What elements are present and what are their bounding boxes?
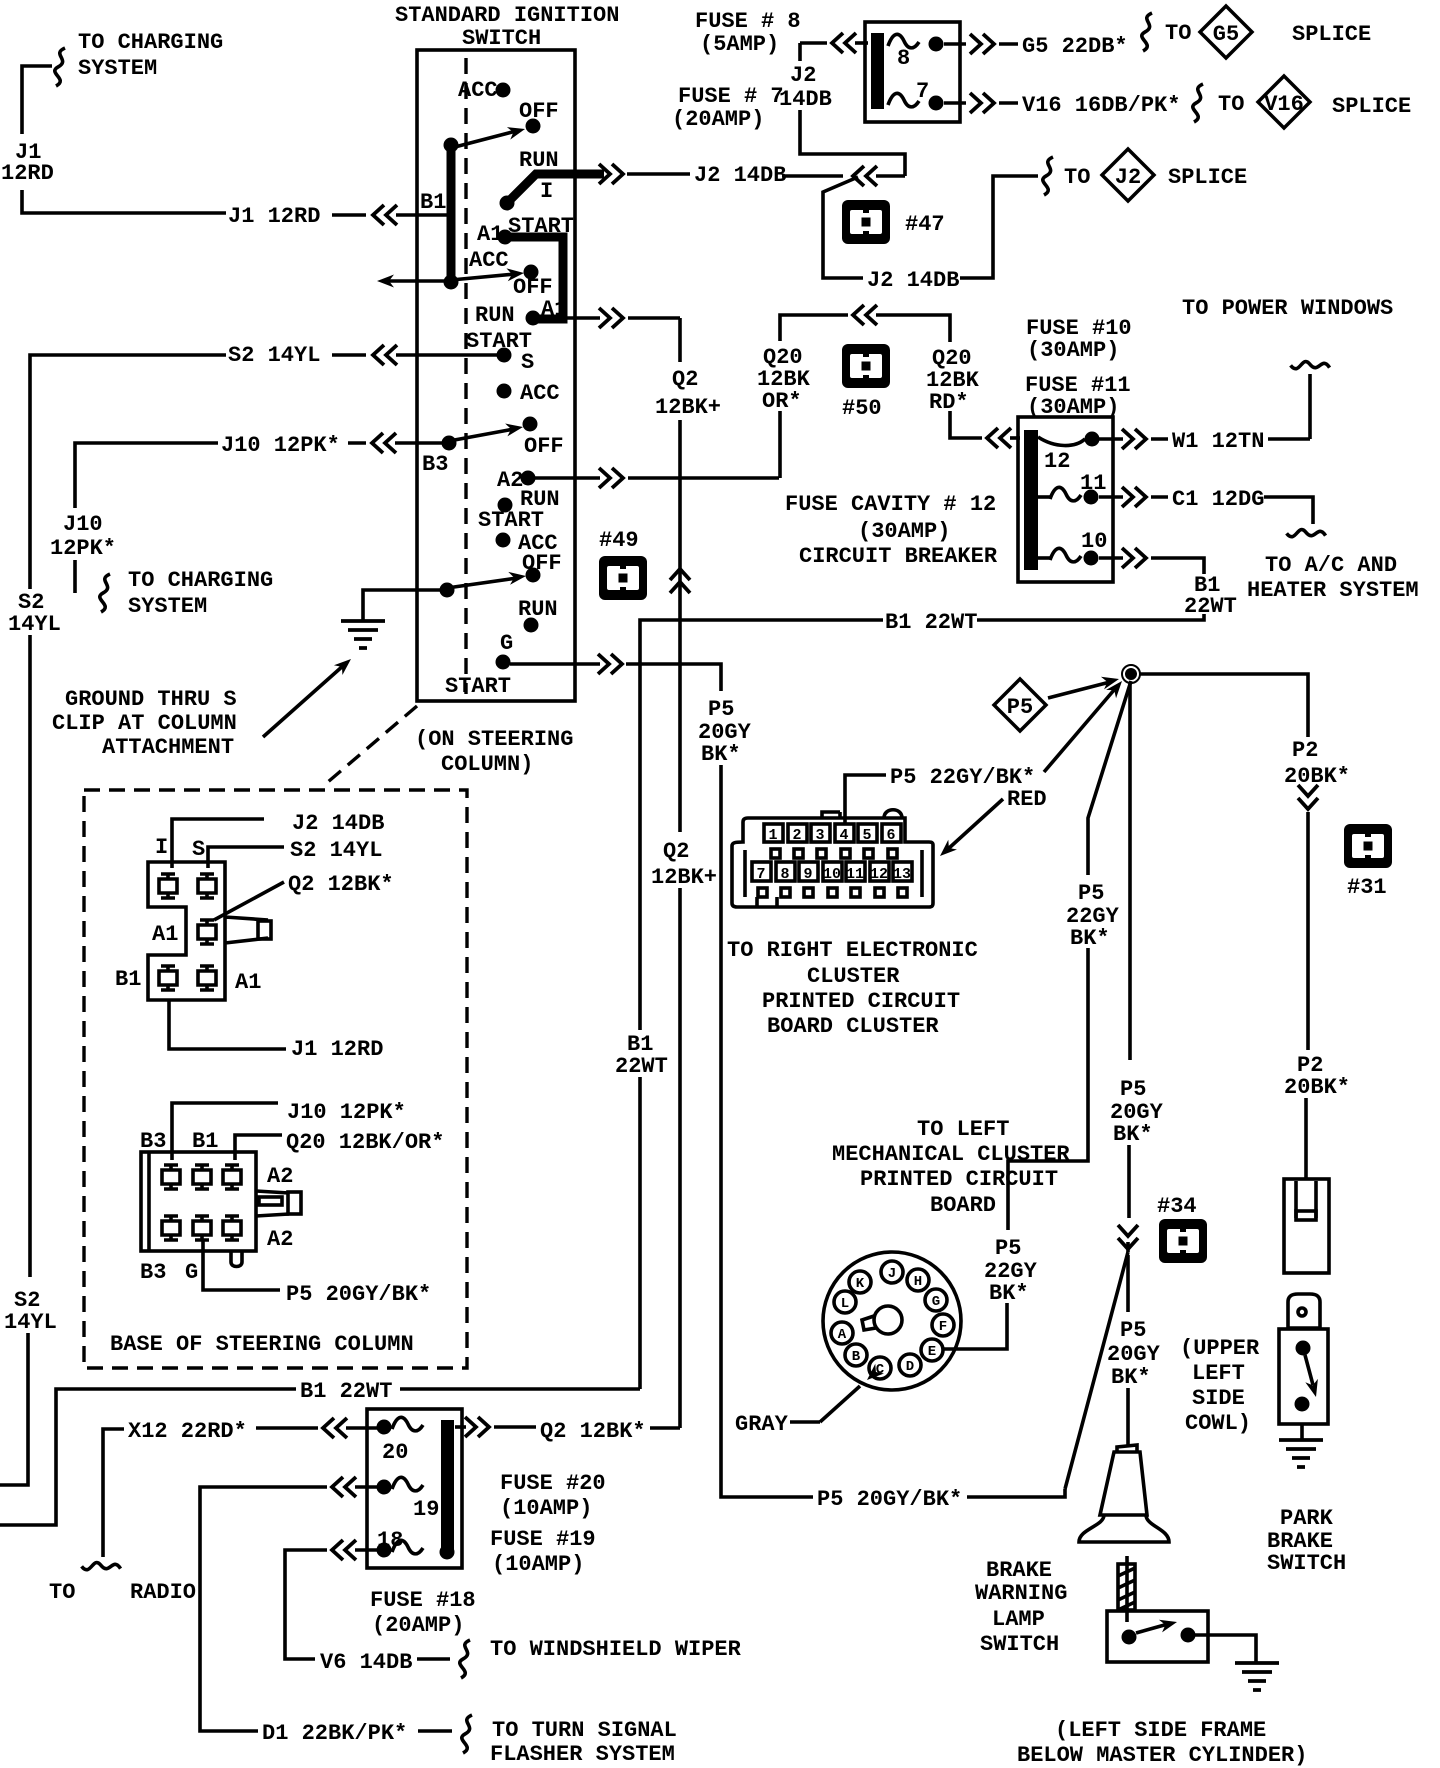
svg-text:#49: #49 [599, 528, 639, 553]
label to right electronic cluster [727, 938, 978, 1039]
svg-text:12PK*: 12PK* [50, 536, 116, 561]
13-pin connector outline [732, 810, 933, 908]
svg-text:GROUND THRU S: GROUND THRU S [65, 687, 237, 712]
svg-text:FLASHER SYSTEM: FLASHER SYSTEM [490, 1742, 675, 1767]
svg-text:14YL: 14YL [8, 612, 61, 637]
svg-text:J: J [888, 1266, 896, 1282]
svg-text:P5: P5 [708, 697, 734, 722]
svg-text:BK*: BK* [1113, 1122, 1153, 1147]
svg-text:#31: #31 [1347, 875, 1387, 900]
contact RUN / I with thick wire [500, 148, 605, 211]
svg-text:8: 8 [780, 866, 789, 883]
svg-text:LEFT: LEFT [1192, 1361, 1245, 1386]
svg-text:1: 1 [768, 827, 777, 844]
svg-text:14DB: 14DB [779, 87, 832, 112]
connector 34 [1157, 1194, 1207, 1263]
label fuse 19 [490, 1527, 596, 1577]
svg-text:RUN: RUN [518, 597, 558, 622]
svg-text:Q2: Q2 [672, 367, 698, 392]
svg-text:(20AMP): (20AMP) [672, 107, 764, 132]
brake lamp switch grommet [1079, 1445, 1169, 1542]
arrow ground annotation [52, 654, 355, 760]
svg-text:20GY: 20GY [1107, 1342, 1161, 1367]
svg-text:20: 20 [382, 1440, 408, 1465]
svg-text:B1: B1 [420, 190, 446, 215]
svg-text:G5 22DB*: G5 22DB* [1022, 34, 1128, 59]
svg-text:(30AMP): (30AMP) [1027, 338, 1119, 363]
contact RUN/START labels above S [466, 303, 532, 354]
svg-text:START: START [445, 674, 511, 699]
brake switch ground [1195, 1635, 1279, 1690]
wire P5 22GY/BK from pin 4 [845, 677, 1127, 824]
svg-text:START: START [478, 508, 544, 533]
splice diamond J2 [1102, 149, 1154, 201]
svg-text:STANDARD IGNITION: STANDARD IGNITION [395, 3, 619, 28]
svg-text:COWL): COWL) [1185, 1411, 1251, 1436]
svg-text:TO WINDSHIELD WIPER: TO WINDSHIELD WIPER [490, 1637, 742, 1662]
connector 31 [1344, 824, 1392, 900]
svg-text:TO POWER WINDOWS: TO POWER WINDOWS [1182, 296, 1393, 321]
svg-text:TO LEFT: TO LEFT [917, 1117, 1009, 1142]
fuse bus bar [871, 33, 884, 109]
wire J1 12RD into switch [228, 204, 447, 229]
contact A1 START with thick wire [477, 214, 574, 326]
svg-text:(10AMP): (10AMP) [500, 1496, 592, 1521]
breaker bus bar [1024, 430, 1038, 570]
round connector pin letters [838, 1266, 947, 1378]
svg-text:12: 12 [1044, 449, 1070, 474]
svg-text:B1: B1 [192, 1129, 218, 1154]
label park brake switch [1267, 1506, 1346, 1576]
svg-text:V16: V16 [1264, 92, 1304, 117]
svg-text:19: 19 [413, 1497, 439, 1522]
svg-text:BELOW MASTER CYLINDER): BELOW MASTER CYLINDER) [1017, 1743, 1307, 1768]
svg-text:3: 3 [815, 827, 824, 844]
svg-text:V16 16DB/PK*: V16 16DB/PK* [1022, 93, 1180, 118]
svg-text:P5: P5 [995, 1236, 1021, 1261]
svg-text:J10 12PK*: J10 12PK* [287, 1100, 406, 1125]
svg-text:B1: B1 [115, 967, 141, 992]
wire P5 20GY/BK from G [510, 654, 813, 1497]
svg-text:7: 7 [916, 79, 929, 104]
connector 49 [599, 528, 647, 600]
park brake ground [1279, 1424, 1323, 1467]
svg-text:HEATER SYSTEM: HEATER SYSTEM [1247, 578, 1419, 603]
upper connector pins [159, 874, 216, 990]
svg-text:20BK*: 20BK* [1284, 1075, 1350, 1100]
svg-text:BK*: BK* [1070, 926, 1110, 951]
label brake warning lamp switch [975, 1558, 1067, 1657]
dashed box base of steering column [84, 790, 467, 1368]
fuse 11 element [1038, 471, 1106, 505]
svg-text:SPLICE: SPLICE [1332, 94, 1411, 119]
svg-text:SYSTEM: SYSTEM [78, 56, 157, 81]
label left side frame [1017, 1718, 1307, 1768]
svg-text:B1 22WT: B1 22WT [885, 610, 977, 635]
contact A2 RUN [497, 468, 560, 512]
fuse 7 element [888, 79, 944, 111]
svg-text:TO CHARGING: TO CHARGING [128, 568, 273, 593]
ignition switch internal dashed divider [464, 58, 467, 694]
label to left mechanical cluster [832, 1117, 1070, 1218]
svg-text:Q20 12BK/OR*: Q20 12BK/OR* [286, 1130, 444, 1155]
svg-text:(5AMP): (5AMP) [700, 32, 779, 57]
svg-text:WARNING: WARNING [975, 1581, 1067, 1606]
circuit breaker box [1018, 417, 1113, 582]
svg-text:BK*: BK* [989, 1281, 1029, 1306]
svg-text:ACC: ACC [520, 381, 560, 406]
wire P5 20GY/BK from junction to 34 [967, 683, 1164, 1497]
svg-text:FUSE #18: FUSE #18 [370, 1588, 476, 1613]
wire Q20 RD down to breaker [950, 411, 1020, 448]
pin numbers 1-6 [768, 827, 895, 844]
B1 feed bar [420, 138, 459, 290]
svg-text:(30AMP): (30AMP) [858, 519, 950, 544]
svg-text:(ON STEERING: (ON STEERING [415, 727, 573, 752]
wire J2 14DB into fuse block [779, 33, 905, 176]
svg-text:TO TURN SIGNAL: TO TURN SIGNAL [492, 1718, 677, 1743]
fuse 18 element [377, 1528, 455, 1560]
junction node P5 [1122, 665, 1140, 683]
label fuse 18 [370, 1588, 476, 1638]
svg-text:J10: J10 [63, 512, 103, 537]
svg-text:FUSE # 7: FUSE # 7 [678, 84, 784, 109]
svg-text:SIDE: SIDE [1192, 1386, 1245, 1411]
svg-text:SPLICE: SPLICE [1292, 22, 1371, 47]
label Q20 12BK RD [926, 346, 980, 415]
fuse 12 element [1038, 432, 1100, 475]
wire C1 12DG to AC heater [1099, 487, 1419, 603]
svg-text:#47: #47 [905, 212, 945, 237]
svg-text:P5: P5 [1120, 1318, 1146, 1343]
svg-text:BOARD: BOARD [930, 1193, 996, 1218]
svg-text:12BK+: 12BK+ [655, 395, 721, 420]
svg-text:B1 22WT: B1 22WT [300, 1379, 392, 1404]
svg-text:TO: TO [49, 1580, 75, 1605]
svg-text:10: 10 [1081, 529, 1107, 554]
wiper arrow B1 bottom to OFF [451, 267, 525, 282]
label fuse cavity 12 [785, 492, 998, 569]
svg-text:B3: B3 [140, 1260, 166, 1285]
wire V6 14DB through fuse 18 [285, 1540, 742, 1678]
fuse bus bar bottom [441, 1420, 454, 1554]
fuse 19 element [377, 1477, 440, 1522]
wire D1 22BK/PK through fuse 19 [200, 1477, 677, 1767]
svg-text:W1 12TN: W1 12TN [1172, 429, 1264, 454]
wire Q20 OR down to A2 [778, 411, 782, 478]
svg-text:OFF: OFF [513, 275, 553, 300]
svg-text:J2 14DB: J2 14DB [292, 811, 384, 836]
contact G START [445, 631, 513, 699]
connector 47 [842, 200, 945, 244]
wire W1 12TN to power windows [1099, 429, 1310, 454]
label upper left side cowl [1180, 1336, 1260, 1436]
svg-text:12BK+: 12BK+ [651, 865, 717, 890]
svg-text:V6 14DB: V6 14DB [320, 1650, 412, 1675]
wire A2 out [535, 468, 779, 488]
svg-text:#50: #50 [842, 396, 882, 421]
fuse 20 element [377, 1417, 424, 1465]
contact ACC third [497, 381, 560, 406]
wire to ground thru S clip [341, 590, 447, 648]
fuse 8 and 7 labels [672, 9, 801, 132]
svg-text:22WT: 22WT [1184, 594, 1237, 619]
wire Q20 12BK/OR to B1 pin [235, 1130, 444, 1160]
svg-text:I: I [155, 835, 168, 860]
contact S [497, 348, 535, 376]
svg-text:PRINTED CIRCUIT: PRINTED CIRCUIT [860, 1167, 1058, 1192]
round connector left mechanical cluster [823, 1252, 961, 1390]
svg-text:SWITCH: SWITCH [1267, 1551, 1346, 1576]
upper connector pin labels [115, 835, 261, 995]
wire Q2 12BK vertical [651, 318, 721, 1428]
svg-text:7: 7 [756, 866, 765, 883]
splice diamond P5 with arrow [994, 673, 1121, 731]
label Q20 12BK OR [757, 345, 811, 414]
svg-text:6: 6 [886, 827, 895, 844]
svg-text:SYSTEM: SYSTEM [128, 594, 207, 619]
svg-text:BRAKE: BRAKE [986, 1558, 1052, 1583]
brake warning lamp switch body [1107, 1611, 1208, 1662]
label fuse 20 [500, 1471, 606, 1521]
ignition switch box [417, 50, 575, 701]
svg-text:2: 2 [792, 827, 801, 844]
svg-text:FUSE #20: FUSE #20 [500, 1471, 606, 1496]
svg-text:E: E [928, 1344, 936, 1360]
svg-text:BASE OF STEERING COLUMN: BASE OF STEERING COLUMN [110, 1332, 414, 1357]
svg-text:S2 14YL: S2 14YL [228, 343, 320, 368]
wire J2 14DB from RUN I [599, 163, 905, 188]
svg-text:FUSE CAVITY # 12: FUSE CAVITY # 12 [785, 492, 996, 517]
wire stub to brake warning lamp switch [1107, 1255, 1161, 1445]
svg-text:P2: P2 [1292, 738, 1318, 763]
svg-text:J1 12RD: J1 12RD [228, 204, 320, 229]
labels FUSE 10 / FUSE 11 [1025, 316, 1132, 420]
svg-text:4: 4 [839, 827, 848, 844]
title ignition switch [395, 3, 619, 51]
svg-text:P5: P5 [1078, 881, 1104, 906]
svg-text:CLUSTER: CLUSTER [807, 964, 900, 989]
svg-text:G: G [500, 631, 513, 656]
contact ACC fourth [496, 531, 558, 556]
contact B3 wiper [422, 421, 524, 477]
svg-text:B: B [852, 1349, 861, 1365]
wire J1 12RD to B1 pin [169, 1000, 383, 1062]
svg-text:TO RIGHT ELECTRONIC: TO RIGHT ELECTRONIC [727, 938, 978, 963]
label RED with arrow [936, 787, 1047, 861]
park brake connector P2 [1284, 1179, 1329, 1273]
wire X12 22RD to radio [49, 1418, 377, 1605]
contact ACC top [458, 78, 511, 103]
svg-text:BK*: BK* [1111, 1365, 1151, 1390]
svg-text:14YL: 14YL [4, 1310, 57, 1335]
svg-text:TO CHARGING: TO CHARGING [78, 30, 223, 55]
svg-text:(10AMP): (10AMP) [492, 1552, 584, 1577]
wire J10 12PK to charging [50, 433, 442, 619]
svg-text:S2 14YL: S2 14YL [290, 838, 382, 863]
wire fork down to connector 47 [823, 176, 1038, 293]
svg-text:S: S [521, 350, 534, 375]
svg-text:9: 9 [803, 866, 812, 883]
svg-text:C1 12DG: C1 12DG [1172, 487, 1264, 512]
svg-text:A1: A1 [152, 922, 178, 947]
svg-text:ACC: ACC [458, 78, 498, 103]
wire Q2 12BK from fuse 20 [455, 1417, 680, 1444]
fuse block 18/19/20 box [367, 1409, 462, 1568]
svg-text:SPLICE: SPLICE [1168, 165, 1247, 190]
wire S2 14YL [0, 343, 497, 1485]
svg-text:13: 13 [893, 866, 911, 883]
lower connector pins [162, 1165, 241, 1240]
brake lamp switch threaded stem [1118, 1556, 1135, 1622]
round connector pins [831, 1261, 954, 1379]
contact OFF fourth [522, 551, 562, 583]
svg-text:P5: P5 [1120, 1077, 1146, 1102]
wire B1 22WT from fuse 10 [615, 548, 1237, 1389]
wire S2 14YL to S pin [208, 838, 382, 868]
upper column connector outline [148, 862, 271, 1000]
dashed pointer to base of steering column [322, 706, 417, 787]
svg-text:SWITCH: SWITCH [462, 26, 541, 51]
connector 50 [842, 344, 890, 421]
svg-text:Q2 12BK*: Q2 12BK* [288, 872, 394, 897]
svg-text:RED: RED [1007, 787, 1047, 812]
svg-text:CIRCUIT BREAKER: CIRCUIT BREAKER [799, 544, 998, 569]
wire G5 22DB out of fuse 8 [944, 13, 1371, 59]
bottom key squares [758, 888, 907, 897]
wire P2 20BK from junction [1140, 674, 1350, 1179]
ground wiper pivot [440, 570, 527, 598]
svg-text:PARK: PARK [1280, 1506, 1334, 1531]
svg-text:(20AMP): (20AMP) [372, 1613, 464, 1638]
svg-text:L: L [841, 1296, 849, 1312]
park brake switch [1279, 1329, 1328, 1424]
svg-text:12RD: 12RD [1, 161, 54, 186]
lower connector pin labels [140, 1129, 293, 1285]
wire to J2 splice [1043, 157, 1247, 195]
fuse 8 element [888, 34, 944, 71]
wire V16 16DB/PK out of fuse 7 [944, 84, 1411, 122]
svg-text:A1: A1 [235, 970, 261, 995]
contact OFF top [519, 99, 559, 134]
splice diamond G5 [1200, 6, 1252, 58]
svg-text:LAMP: LAMP [992, 1607, 1045, 1632]
svg-text:TO: TO [1218, 92, 1244, 117]
svg-text:BK*: BK* [701, 742, 741, 767]
svg-text:ACC: ACC [469, 248, 509, 273]
svg-text:RUN: RUN [475, 303, 515, 328]
svg-text:D: D [906, 1359, 914, 1375]
svg-text:CLIP AT COLUMN: CLIP AT COLUMN [52, 711, 237, 736]
contact ACC/OFF second [469, 248, 553, 300]
svg-text:J2 14DB: J2 14DB [867, 268, 959, 293]
svg-text:Q2 12BK*: Q2 12BK* [540, 1419, 646, 1444]
contact START fourth [478, 498, 544, 534]
contact RUN fifth [518, 597, 558, 633]
pin numbers 7-13 [756, 866, 911, 883]
svg-text:A2: A2 [267, 1164, 293, 1189]
svg-text:I: I [540, 179, 553, 204]
label GRAY with arrow [735, 1364, 884, 1437]
wire J1 12RD to charging system [1, 30, 226, 213]
svg-text:COLUMN): COLUMN) [441, 752, 533, 777]
wire J10 12PK to B3 pin [172, 1100, 406, 1160]
lower column connector outline [141, 1152, 301, 1267]
svg-text:P5 20GY/BK*: P5 20GY/BK* [286, 1282, 431, 1307]
svg-text:OFF: OFF [524, 434, 564, 459]
wire P5 22GY/BK to E pin [944, 681, 1131, 1349]
svg-text:PRINTED CIRCUIT: PRINTED CIRCUIT [762, 989, 960, 1014]
fuse block 8/7 box [865, 22, 960, 122]
svg-text:FUSE # 8: FUSE # 8 [695, 9, 801, 34]
wire P5 20GY/BK to G pin [203, 1240, 431, 1307]
wire Q20 link row [780, 305, 950, 342]
wire J2 14DB to I pin [172, 811, 384, 868]
wire B1 22WT bottom run [0, 1379, 640, 1525]
svg-text:F: F [939, 1319, 947, 1335]
svg-text:OFF: OFF [519, 99, 559, 124]
svg-text:TO A/C AND: TO A/C AND [1265, 553, 1397, 578]
park brake plug [1288, 1294, 1320, 1328]
svg-text:K: K [856, 1276, 865, 1292]
middle key squares [771, 849, 897, 858]
svg-text:SWITCH: SWITCH [980, 1632, 1059, 1657]
svg-text:H: H [914, 1274, 922, 1290]
svg-text:X12 22RD*: X12 22RD* [128, 1419, 247, 1444]
svg-text:J1 12RD: J1 12RD [291, 1037, 383, 1062]
label TO POWER WINDOWS [1182, 296, 1393, 439]
svg-text:MECHANICAL CLUSTER: MECHANICAL CLUSTER [832, 1142, 1070, 1167]
svg-text:22WT: 22WT [615, 1054, 668, 1079]
svg-text:(LEFT SIDE FRAME: (LEFT SIDE FRAME [1055, 1718, 1266, 1743]
svg-text:G: G [185, 1260, 198, 1285]
svg-text:11: 11 [846, 866, 864, 883]
svg-text:Q2: Q2 [663, 839, 689, 864]
svg-text:A2: A2 [267, 1227, 293, 1252]
svg-text:G: G [932, 1294, 940, 1310]
svg-text:10: 10 [823, 866, 841, 883]
fuse 10 element [1038, 529, 1107, 566]
svg-text:FUSE #19: FUSE #19 [490, 1527, 596, 1552]
splice diamond V16 [1258, 76, 1310, 128]
svg-text:TO: TO [1064, 165, 1090, 190]
svg-text:B3: B3 [422, 452, 448, 477]
svg-text:RADIO: RADIO [130, 1580, 196, 1605]
svg-text:J2: J2 [1115, 165, 1141, 190]
svg-text:P5: P5 [1007, 695, 1033, 720]
contact OFF third [523, 417, 564, 460]
svg-text:12: 12 [870, 866, 888, 883]
svg-text:G5: G5 [1213, 22, 1239, 47]
svg-text:GRAY: GRAY [735, 1412, 789, 1437]
svg-text:8: 8 [897, 46, 910, 71]
pin boxes row 1-6 [764, 824, 901, 842]
svg-text:#34: #34 [1157, 1194, 1197, 1219]
wire exit left arrow from B1 bottom [377, 275, 448, 288]
svg-text:BOARD CLUSTER: BOARD CLUSTER [767, 1014, 939, 1039]
svg-text:RUN: RUN [519, 148, 559, 173]
svg-text:B3: B3 [140, 1129, 166, 1154]
pin boxes row 7-13 [752, 862, 912, 881]
svg-text:5: 5 [862, 827, 871, 844]
svg-text:J10 12PK*: J10 12PK* [221, 433, 340, 458]
wiper arrow B1 to OFF [451, 123, 527, 148]
wire Q2 12BK to center pin [214, 872, 394, 920]
svg-text:D1 22BK/PK*: D1 22BK/PK* [262, 1721, 407, 1746]
svg-text:OR*: OR* [762, 389, 802, 414]
label (ON STEERING COLUMN) [415, 727, 573, 777]
svg-text:TO: TO [1165, 21, 1191, 46]
